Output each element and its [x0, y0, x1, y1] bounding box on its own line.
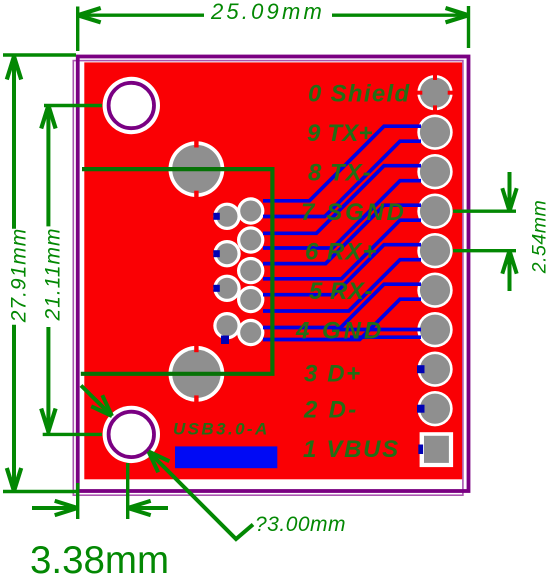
- leader ?3.00mm drill: [149, 452, 254, 540]
- svg-text:3 D+: 3 D+: [304, 361, 362, 388]
- dimension 27.91mm: extension ticks: [3, 55, 76, 492]
- right header pad 1 VBUS (square): [420, 432, 454, 467]
- dimension 27.91mm: bottom arrowhead: [7, 468, 21, 491]
- right header pad 8 TX-: [417, 154, 452, 189]
- svg-text:1 VBUS: 1 VBUS: [303, 436, 400, 463]
- svg-text:6 RX+: 6 RX+: [305, 239, 377, 266]
- trace pair to pad 7 SGND (upper): [263, 205, 421, 263]
- right header pad 5 RX-: [417, 273, 452, 308]
- right header pad 6 RX+: [417, 233, 452, 268]
- connector front-row pin pad F1: [213, 203, 240, 230]
- svg-text:2 D-: 2 D-: [303, 397, 359, 424]
- svg-text:0 Shield: 0 Shield: [308, 81, 410, 108]
- svg-text:27.91mm: 27.91mm: [8, 228, 31, 324]
- connector back-row pin pad B3: [237, 257, 264, 284]
- connector front-row pin pad F3: [213, 275, 240, 302]
- leader arrow to hole (upper-left): [81, 386, 112, 417]
- via notch right pad 2: [417, 405, 425, 413]
- dimension 27.91mm: top arrowhead: [7, 57, 21, 80]
- shield post top: [169, 140, 225, 198]
- svg-text:9 TX+: 9 TX+: [307, 120, 373, 147]
- dimension 25.09mm: left arrowhead: [78, 8, 101, 22]
- board clearance thin outline: [73, 61, 463, 496]
- dimension 3.38mm: right arrow: [128, 501, 168, 515]
- svg-text:4 GND: 4 GND: [295, 318, 384, 345]
- via notch pad F1: [213, 213, 220, 220]
- trace pair to pad 8 TX- (upper): [263, 166, 421, 234]
- dimension 2.54mm: bottom arrow: [502, 251, 516, 291]
- dimension 21.11mm: bottom arrowhead: [41, 409, 55, 432]
- right header pad 0 Shield (thermal relief): [417, 75, 453, 111]
- svg-text:8 TX-: 8 TX-: [308, 160, 372, 187]
- svg-text:5 RX-: 5 RX-: [309, 278, 373, 305]
- svg-text:?3.00mm: ?3.00mm: [255, 513, 346, 536]
- svg-text:7 SGND: 7 SGND: [301, 199, 407, 226]
- right header pad 2 D-: [417, 391, 452, 426]
- trace pair to pad 9 TX+ (lower): [263, 141, 421, 216]
- mounting hole top: [103, 77, 160, 134]
- board outline (purple): [78, 57, 469, 492]
- dimension 25.09mm: label: [204, 0, 332, 24]
- dimension 25.09mm: line: [78, 13, 469, 16]
- dimension 3.38mm: left arrow: [32, 501, 78, 515]
- right header pad 3 D+: [417, 352, 452, 387]
- trace pair to pad 9 TX+ (upper): [263, 126, 421, 201]
- trace pair to pad 7 SGND (lower): [263, 220, 421, 279]
- svg-text:USB3.0-A: USB3.0-A: [173, 420, 270, 439]
- copper pour (red board area): [84, 62, 462, 479]
- dimension 3.38mm: extension ticks: [78, 463, 128, 519]
- dimension 2.54mm: top arrow: [502, 172, 516, 211]
- dimension 25.09mm: right arrowhead: [446, 8, 469, 22]
- via notch right pad 3: [417, 365, 425, 373]
- dimension 25.09mm: extension ticks: [78, 6, 469, 51]
- trace pair to pad 6 RX+ (upper): [263, 245, 421, 295]
- dimension 21.11mm: line (broken for label): [46, 106, 50, 434]
- connector body outline (green): [81, 169, 273, 374]
- right header pad 9 TX+: [417, 115, 452, 150]
- svg-text:21.11mm: 21.11mm: [41, 228, 64, 322]
- via notch pad F4 (bottom side): [221, 336, 229, 345]
- connector back-row pin pad B2: [237, 226, 264, 253]
- via notch pad F2: [213, 250, 220, 257]
- right header pad 4 GND: [417, 312, 452, 347]
- shield post bottom: [169, 345, 225, 403]
- dimension 21.11mm: top arrowhead: [41, 106, 55, 129]
- trace pair to pad 5 RX- (upper): [263, 284, 421, 327]
- connector back-row pin pad B1: [237, 197, 264, 224]
- connector back-row pin pad B5: [237, 319, 264, 346]
- dimension 21.11mm: extension ticks: [43, 106, 102, 435]
- trace pair to pad 8 TX- (lower): [263, 181, 421, 248]
- trace pair to pad 5 RX- (lower): [263, 299, 421, 339]
- connector front-row pin pad F2: [213, 240, 240, 267]
- trace to pad 4 GND (lower): [350, 335, 421, 339]
- via notch right pad 1: [418, 445, 423, 455]
- right header pad 7 SGND: [417, 194, 452, 229]
- svg-text:25.09mm: 25.09mm: [210, 0, 325, 24]
- svg-text:3.38mm: 3.38mm: [30, 539, 169, 577]
- dimension 2.54mm: extension ticks: [453, 211, 516, 251]
- mounting hole bottom: [103, 406, 160, 463]
- dimension 27.91mm: line (broken for label): [12, 57, 16, 492]
- connector back-row pin pad B4: [237, 286, 264, 313]
- USB connector tongue (blue rectangle): [175, 446, 277, 468]
- trace to pad 4 GND (upper): [332, 328, 421, 332]
- via notch pad F3: [213, 285, 220, 292]
- svg-text:2.54mm: 2.54mm: [529, 200, 550, 274]
- connector front-row pin pad F4: [213, 312, 240, 339]
- trace pair to pad 6 RX+ (lower): [263, 260, 421, 311]
